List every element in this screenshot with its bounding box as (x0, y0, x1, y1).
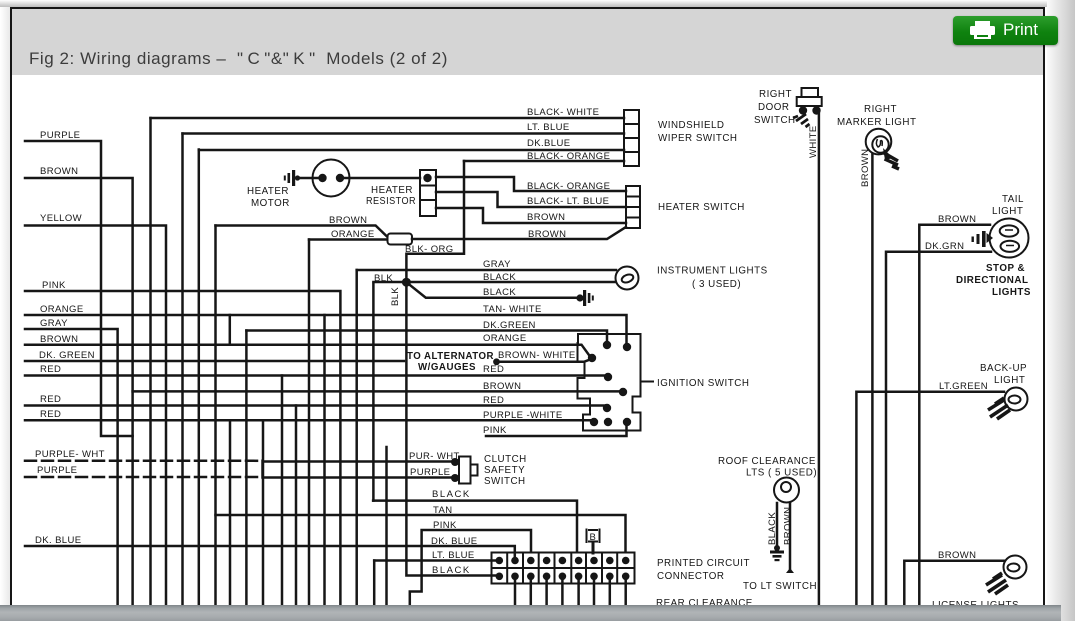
svg-text:BROWN: BROWN (329, 215, 367, 226)
printed circuit connector (492, 553, 635, 584)
svg-text:HEATER: HEATER (247, 186, 289, 197)
vertical bus x296 (295, 406, 298, 606)
svg-text:BLK: BLK (374, 273, 393, 284)
clutch safety switch body (459, 457, 471, 484)
wire top BLACK-WHITE (151, 117, 625, 120)
tail light DK GRN wire (886, 252, 991, 605)
svg-text:TO ALTERNATOR: TO ALTERNATOR (407, 351, 494, 362)
svg-text:DK. BLUE: DK. BLUE (35, 535, 82, 546)
wire LT BLUE pcc (374, 559, 495, 562)
heater motor circle (313, 160, 350, 197)
ignition pins (603, 341, 611, 349)
svg-text:RESISTOR: RESISTOR (366, 196, 416, 207)
svg-text:PURPLE- WHT: PURPLE- WHT (35, 449, 105, 460)
wire top LT BLUE (183, 132, 625, 135)
vertical bus x386 (385, 447, 388, 605)
wire BROWN heater (216, 226, 388, 237)
svg-text:DIRECTIONAL: DIRECTIONAL (956, 275, 1028, 286)
B box (587, 529, 600, 544)
svg-text:LT.GREEN: LT.GREEN (939, 381, 988, 392)
svg-text:RED: RED (40, 394, 61, 405)
wire BLACK instrument (373, 281, 615, 284)
svg-text:MOTOR: MOTOR (251, 198, 290, 209)
svg-text:ORANGE: ORANGE (40, 304, 84, 315)
wire vertical x324 (323, 315, 326, 605)
clutch pins (451, 458, 459, 466)
svg-text:BROWN: BROWN (938, 214, 976, 225)
svg-text:SAFETY: SAFETY (484, 465, 525, 476)
svg-text:MARKER LIGHT: MARKER LIGHT (837, 117, 917, 128)
svg-text:DK.GRN: DK.GRN (925, 241, 964, 252)
wire PINK ignition (486, 422, 627, 436)
svg-text:LT. BLUE: LT. BLUE (527, 122, 570, 133)
wire PURPLE-WHT dashed (25, 460, 263, 463)
wire PUR-WHT solid to clutch (263, 461, 453, 478)
svg-text:STOP &: STOP & (986, 263, 1025, 274)
svg-text:RIGHT: RIGHT (864, 104, 897, 115)
wire RED left to ignition (25, 374, 606, 377)
svg-text:TO LT SWITCH: TO LT SWITCH (743, 581, 817, 592)
pcc bottom drops (515, 578, 626, 605)
vertical x374 lt blue feed (373, 561, 376, 606)
ground instrument (583, 290, 586, 306)
svg-text:PINK: PINK (42, 280, 66, 291)
roof clearance lamp (774, 478, 799, 503)
wire heater motor to resistor (344, 177, 420, 180)
svg-text:BROWN: BROWN (783, 507, 794, 545)
svg-text:TAN: TAN (433, 505, 453, 516)
ground tail light (982, 231, 986, 247)
svg-text:TAIL: TAIL (1002, 194, 1024, 205)
ground back-up hash (988, 398, 1010, 419)
wire BLK-ORG to heater switch (412, 227, 626, 239)
svg-text:DOOR: DOOR (758, 102, 789, 113)
heater switch connector (626, 186, 640, 228)
svg-text:TAN- WHITE: TAN- WHITE (483, 304, 542, 315)
svg-text:BLACK- ORANGE: BLACK- ORANGE (527, 181, 610, 192)
wire BROWN/ORANGE to ignition (25, 345, 592, 359)
ground roof clearance (774, 545, 780, 551)
vertical bus x373 black instrument (372, 284, 375, 501)
vertical bus x230 (229, 420, 232, 605)
back-up LT GREEN wire (856, 392, 1004, 605)
svg-text:PURPLE: PURPLE (40, 130, 80, 141)
svg-text:WINDSHIELD: WINDSHIELD (658, 120, 725, 131)
ground heater motor (292, 170, 295, 186)
svg-text:( 3 USED): ( 3 USED) (692, 279, 741, 290)
wire RED2 left to ignition (25, 404, 605, 407)
b-box drop (592, 543, 595, 553)
wire GRAY instrument (357, 269, 616, 272)
svg-text:BROWN: BROWN (527, 212, 565, 223)
vertical x464 black-orange (406, 161, 495, 576)
svg-text:GRAY: GRAY (40, 318, 68, 329)
wire RED3 / PURPLE-WHITE to ignition (25, 419, 593, 422)
svg-text:CONNECTOR: CONNECTOR (657, 571, 724, 582)
wire PINK left (25, 291, 340, 605)
svg-text:DK. BLUE: DK. BLUE (431, 536, 478, 547)
svg-text:LT. BLUE: LT. BLUE (432, 550, 475, 561)
wire BROWN ignition (133, 390, 621, 393)
ground door switch hash (793, 114, 810, 127)
svg-text:PRINTED CIRCUIT: PRINTED CIRCUIT (657, 558, 750, 569)
svg-text:BROWN: BROWN (860, 149, 871, 187)
wire drop orange to brown bus (229, 315, 232, 345)
svg-text:BLACK- ORANGE: BLACK- ORANGE (527, 151, 610, 162)
svg-text:BACK-UP: BACK-UP (980, 363, 1027, 374)
svg-text:BROWN: BROWN (528, 229, 566, 240)
wire resistor out3 (436, 208, 626, 223)
svg-text:CLUTCH: CLUTCH (484, 454, 527, 465)
wire BROWN left (25, 178, 133, 605)
svg-text:BLACK- LT. BLUE: BLACK- LT. BLUE (527, 196, 609, 207)
wire TAN (216, 515, 626, 552)
vertical bus x198 DK BLUE (198, 150, 201, 606)
svg-text:BLACK: BLACK (767, 512, 778, 545)
svg-text:PURPLE: PURPLE (410, 467, 450, 478)
right marker light lamp (866, 129, 892, 155)
svg-text:ORANGE: ORANGE (331, 229, 375, 240)
svg-text:INSTRUMENT LIGHTS: INSTRUMENT LIGHTS (657, 266, 768, 277)
tail light lamp (990, 219, 1029, 258)
vertical bus x309 orange heater (308, 240, 311, 606)
ground marker light hash (884, 153, 899, 169)
wire DK GREEN left (25, 360, 404, 363)
wire YELLOW left (25, 226, 166, 606)
wire resistor out2 (436, 192, 626, 207)
tail light BROWN wire (919, 225, 990, 605)
svg-text:W/GAUGES: W/GAUGES (418, 362, 476, 373)
outer chrome (0, 0, 1075, 7)
svg-text:RED: RED (40, 409, 61, 420)
license BROWN wire (904, 561, 1004, 605)
svg-text:BROWN: BROWN (938, 550, 976, 561)
svg-text:LIGHT: LIGHT (992, 206, 1023, 217)
svg-text:HEATER SWITCH: HEATER SWITCH (658, 202, 745, 213)
vertical bus x182 LT BLUE (181, 134, 184, 606)
pcc dots top row (496, 557, 504, 565)
vertical bus x246 (245, 331, 248, 606)
svg-text:DK.BLUE: DK.BLUE (527, 138, 570, 149)
svg-text:BLK: BLK (390, 287, 401, 306)
vertical bus x356 gray instrument (355, 270, 358, 605)
svg-text:SWITCH: SWITCH (484, 476, 526, 487)
instrument lights symbol (616, 267, 639, 290)
back-up light lamp (1005, 388, 1028, 411)
svg-text:WIPER SWITCH: WIPER SWITCH (658, 133, 737, 144)
marker light vertical BROWN (871, 154, 874, 605)
wire BROWN-WHITE to ignition hook (497, 359, 592, 362)
svg-text:RED: RED (40, 364, 61, 375)
svg-text:WHITE: WHITE (808, 125, 819, 158)
wire PURPLE dashed (25, 476, 263, 479)
svg-text:RIGHT: RIGHT (759, 89, 792, 100)
junction dots (318, 174, 326, 182)
svg-text:YELLOW: YELLOW (40, 213, 82, 224)
svg-text:BROWN- WHITE: BROWN- WHITE (498, 350, 576, 361)
wire PURPLE left (25, 141, 133, 436)
svg-text:BLACK: BLACK (432, 565, 471, 576)
svg-text:PURPLE -WHITE: PURPLE -WHITE (483, 410, 563, 421)
vertical bus x215 (214, 226, 217, 606)
heater resistor box (420, 170, 436, 216)
vertical bus x282 (281, 376, 284, 606)
wire GRAY left (25, 329, 118, 605)
svg-text:PINK: PINK (433, 520, 457, 531)
door switch pins (799, 106, 807, 114)
wire DK GREEN instrument to ignition (246, 331, 607, 346)
wire top DK BLUE (199, 149, 624, 152)
svg-text:DK. GREEN: DK. GREEN (39, 350, 95, 361)
wire leader to ignition label (641, 381, 655, 383)
svg-text:DK.GREEN: DK.GREEN (483, 320, 536, 331)
svg-text:ROOF CLEARANCE: ROOF CLEARANCE (718, 456, 816, 467)
pcc dots bottom row (496, 573, 504, 581)
svg-text:BLACK- WHITE: BLACK- WHITE (527, 107, 599, 118)
svg-text:PURPLE: PURPLE (37, 465, 77, 476)
svg-text:PUR- WHT: PUR- WHT (409, 451, 460, 462)
svg-text:ORANGE: ORANGE (483, 333, 527, 344)
wire BLACK clutch (373, 501, 577, 552)
svg-text:RED: RED (483, 364, 504, 375)
roof brown wire foot (786, 568, 794, 573)
vertical bus x150 BLACK-WHITE (149, 118, 152, 605)
svg-text:BLACK: BLACK (483, 272, 516, 283)
svg-text:B: B (590, 532, 597, 543)
wire ORANGE heater to BLK-ORG (309, 238, 387, 241)
svg-text:IGNITION SWITCH: IGNITION SWITCH (657, 378, 749, 389)
ground license hash (986, 573, 1008, 594)
right door switch symbol (802, 88, 819, 97)
roof clearance wires (777, 503, 790, 570)
svg-text:RED: RED (483, 395, 504, 406)
vertical bus x263 (262, 420, 265, 605)
BLK-ORG resistor box (388, 234, 413, 245)
svg-text:BROWN: BROWN (483, 381, 521, 392)
svg-text:GRAY: GRAY (483, 259, 511, 270)
wire PINK pcc (410, 530, 531, 605)
wire BLACK diag to ground (406, 282, 578, 298)
svg-text:BROWN: BROWN (40, 166, 78, 177)
svg-text:LIGHTS: LIGHTS (992, 287, 1031, 298)
svg-text:BLACK: BLACK (483, 287, 516, 298)
svg-text:LIGHT: LIGHT (994, 375, 1025, 386)
ignition switch connector outline (578, 334, 641, 431)
license lights lamp (1004, 556, 1027, 579)
svg-text:HEATER: HEATER (371, 185, 413, 196)
wire DK BLUE left long (25, 546, 515, 556)
svg-text:LTS ( 5 USED): LTS ( 5 USED) (746, 468, 817, 479)
svg-text:BLK- ORG: BLK- ORG (405, 244, 454, 255)
wire resistor out1 (436, 177, 626, 191)
svg-text:SWITCH: SWITCH (754, 115, 796, 126)
svg-text:BLACK: BLACK (432, 489, 471, 500)
wire ORANGE / TAN-WHITE (25, 315, 627, 345)
windshield wiper switch connector (624, 110, 639, 166)
svg-text:PINK: PINK (483, 425, 507, 436)
wire top BLACK-ORANGE (464, 160, 624, 163)
right door switch vertical WHITE (818, 109, 821, 605)
svg-text:BROWN: BROWN (40, 334, 78, 345)
wire heater motor ground stub (300, 177, 319, 180)
